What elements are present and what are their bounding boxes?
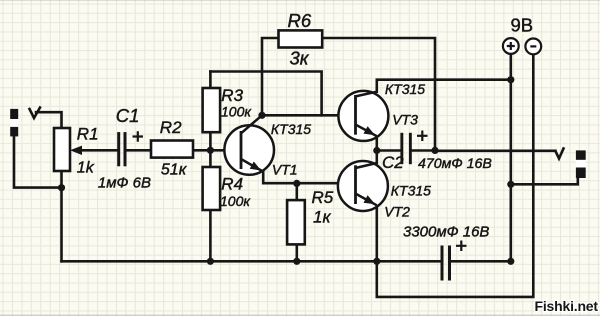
svg-text:R3: R3 (221, 86, 243, 105)
svg-text:R2: R2 (160, 118, 182, 137)
svg-text:3300мФ 16В: 3300мФ 16В (403, 224, 489, 241)
svg-text:3к: 3к (290, 48, 310, 69)
svg-text:100к: 100к (220, 193, 251, 209)
svg-text:1k: 1k (77, 160, 95, 177)
svg-text:470мФ 16В: 470мФ 16В (418, 156, 492, 172)
svg-text:VT1: VT1 (272, 162, 298, 178)
svg-text:КТ315: КТ315 (385, 81, 425, 97)
svg-text:С2: С2 (382, 153, 404, 172)
svg-text:КТ315: КТ315 (271, 121, 311, 137)
svg-text:R6: R6 (288, 10, 312, 31)
svg-text:R4: R4 (221, 175, 243, 194)
svg-text:100к: 100к (221, 103, 252, 119)
svg-text:КТ315: КТ315 (391, 183, 431, 199)
svg-text:VT3: VT3 (392, 112, 418, 128)
svg-text:R5: R5 (312, 188, 334, 207)
svg-text:1мФ 6В: 1мФ 6В (98, 175, 151, 192)
svg-text:9В: 9В (511, 14, 534, 35)
svg-text:Fishki.net: Fishki.net (535, 298, 599, 314)
svg-text:51к: 51к (161, 161, 188, 178)
svg-text:1к: 1к (313, 208, 331, 227)
svg-text:VT2: VT2 (384, 204, 410, 220)
svg-text:R1: R1 (77, 124, 99, 143)
svg-text:С1: С1 (116, 105, 140, 126)
